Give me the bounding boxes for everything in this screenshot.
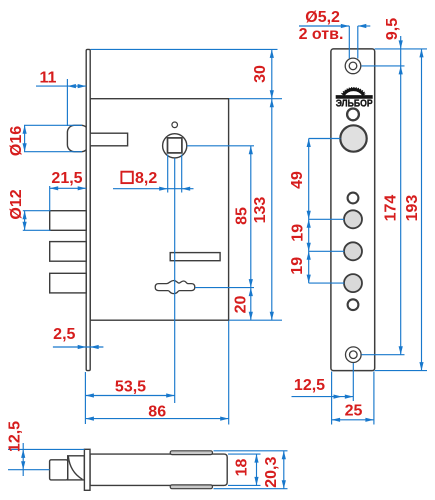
faceplate edge xyxy=(86,49,90,370)
small hole above spindle xyxy=(172,122,178,128)
svg-text:21,5: 21,5 xyxy=(51,170,82,187)
dim d12 line xyxy=(24,211,26,231)
dim 49+19+19 line xyxy=(308,139,310,284)
centerline square down xyxy=(174,158,176,403)
ext side body right top/bottom xyxy=(228,453,261,455)
svg-text:12,5: 12,5 xyxy=(7,421,24,452)
ext top hole center xyxy=(362,65,405,67)
faceplate side bar xyxy=(84,449,90,490)
spindle circle xyxy=(163,134,187,158)
dim 20 arrows xyxy=(249,288,253,297)
dim 2.5 arrows outside xyxy=(78,345,87,349)
dim 133 arrows xyxy=(270,99,274,108)
logo ELBOR bar xyxy=(336,95,373,99)
ext latch left xyxy=(66,79,68,126)
dim 19b arrows xyxy=(307,251,311,259)
latch bevel curve xyxy=(68,456,82,479)
ext side latch center xyxy=(8,469,50,471)
ext bolt1 left xyxy=(49,186,51,210)
leader d5.2 shelf xyxy=(299,25,349,27)
top strip xyxy=(170,451,212,455)
dim 20.3 arrows xyxy=(282,451,286,460)
svg-text:20,3: 20,3 xyxy=(263,457,280,488)
dim 25 line xyxy=(332,419,374,421)
svg-text:Ø5,2: Ø5,2 xyxy=(305,9,340,26)
svg-text:8,2: 8,2 xyxy=(135,170,157,187)
small hole low xyxy=(348,299,359,310)
dim 53.5 arrows xyxy=(85,393,94,397)
ext plate left down xyxy=(84,372,86,424)
bottom strip xyxy=(170,485,212,489)
latch stem side xyxy=(50,460,68,480)
bolt hole 1 xyxy=(344,210,362,228)
ext plate top right xyxy=(375,48,427,50)
ext latch bottom xyxy=(24,151,82,153)
bottom screw hole countersink xyxy=(346,347,362,363)
svg-text:85: 85 xyxy=(234,207,251,225)
faceplate front xyxy=(331,49,375,371)
svg-text:2,5: 2,5 xyxy=(53,326,75,343)
latch bolt (front) xyxy=(67,125,88,151)
svg-text:174: 174 xyxy=(383,195,400,222)
slot xyxy=(170,253,220,261)
dim 30 line xyxy=(271,49,273,98)
dim 12.5 left line xyxy=(22,443,24,476)
dim 18 arrows xyxy=(254,454,258,463)
ext square sides xyxy=(167,155,169,193)
bolt hole 2 xyxy=(344,242,362,260)
svg-text:19: 19 xyxy=(289,257,306,275)
dim 8.2 arrows outside xyxy=(159,187,168,191)
small hole xyxy=(348,193,359,204)
ext plate right bottom xyxy=(373,372,375,425)
label 8.2 with square symbol xyxy=(121,172,132,183)
svg-text:9,5: 9,5 xyxy=(384,18,401,40)
latch bar xyxy=(90,133,127,146)
ext plate top long xyxy=(91,48,278,50)
logo ELBOR teeth xyxy=(342,88,365,94)
dim 193 line xyxy=(421,49,423,371)
svg-text:Ø12: Ø12 xyxy=(8,189,25,219)
ext bottom hole center xyxy=(362,354,405,356)
svg-text:25: 25 xyxy=(345,403,363,420)
svg-text:20: 20 xyxy=(232,296,249,314)
dim 12.5 right arrows xyxy=(334,395,343,399)
ext body bottom xyxy=(229,319,282,321)
spindle square 8.2 xyxy=(168,138,182,153)
dim d16 arrows xyxy=(23,125,27,134)
dim 193 arrows xyxy=(419,49,423,58)
ext plate left bottom xyxy=(331,372,333,425)
big latch opening xyxy=(340,125,366,151)
dim 86 arrows xyxy=(85,417,94,421)
ext side plate top xyxy=(8,448,84,450)
ext bottom hole center down xyxy=(352,363,354,401)
dim 85 arrows xyxy=(249,146,253,155)
ext hole sides xyxy=(348,26,350,59)
side body xyxy=(90,454,227,485)
svg-text:193: 193 xyxy=(404,195,421,222)
svg-text:18: 18 xyxy=(234,459,251,477)
ext strip top/bottom xyxy=(214,450,288,452)
svg-text:2 отв.: 2 отв. xyxy=(299,26,344,43)
latch head side xyxy=(68,456,85,480)
svg-text:53,5: 53,5 xyxy=(115,379,146,396)
ext keyhole center horizontal xyxy=(195,287,254,289)
ext bolt1 bottom xyxy=(23,229,51,231)
ext plate bottom right xyxy=(375,370,427,372)
dim 133 line xyxy=(271,99,273,321)
svg-text:30: 30 xyxy=(252,65,269,83)
dim 12.5 right line xyxy=(292,396,354,398)
ext body top xyxy=(229,98,282,100)
dim 174 arrows xyxy=(399,66,403,75)
top screw hole xyxy=(349,62,357,70)
ext body right down xyxy=(228,321,230,425)
dim 53.5 line xyxy=(85,395,174,397)
ext bolt1 top xyxy=(23,210,51,212)
dim 85+20 line xyxy=(250,146,252,320)
dim 18 line xyxy=(256,454,258,485)
dim 9.5 upper tail xyxy=(400,36,402,49)
bottom screw hole xyxy=(350,351,358,359)
dim 9.5 arrows xyxy=(399,40,403,49)
dim 20.3 line xyxy=(283,451,285,489)
svg-text:Ø16: Ø16 xyxy=(8,126,25,156)
svg-text:19: 19 xyxy=(290,224,307,242)
svg-text:86: 86 xyxy=(148,404,166,421)
hole under logo xyxy=(347,109,359,121)
svg-text:11: 11 xyxy=(40,70,57,87)
dim 19a arrows xyxy=(307,219,311,228)
bolt 1 xyxy=(50,211,86,231)
ext square center horizontal xyxy=(187,145,254,147)
dim 21.5 arrows xyxy=(50,186,59,190)
ext latch top xyxy=(24,124,82,126)
dim 11 line xyxy=(36,85,86,87)
keyhole xyxy=(155,281,195,294)
top screw hole countersink xyxy=(345,58,361,74)
ext bolt hole centers xyxy=(309,218,345,220)
dim 174 line xyxy=(400,49,402,355)
dim 21.5 line xyxy=(50,187,86,189)
lock body xyxy=(90,99,228,321)
svg-text:49: 49 xyxy=(289,171,306,189)
dim 12.5 left arrows xyxy=(21,449,25,458)
bolt 2 xyxy=(50,242,86,262)
dim 49 arrows xyxy=(307,139,311,148)
dim 8.2 line xyxy=(113,188,194,190)
svg-text:133: 133 xyxy=(252,197,269,224)
dim d12 arrows xyxy=(23,211,27,220)
svg-text:12,5: 12,5 xyxy=(294,377,325,394)
logo ELBOR arc xyxy=(343,89,364,95)
dim 30 arrows xyxy=(270,49,274,58)
dim 25 arrows xyxy=(332,418,341,422)
dim 11 arrows xyxy=(67,84,76,88)
bolt hole 3 xyxy=(344,274,362,292)
dim 86 line xyxy=(85,418,228,420)
dim d16 line xyxy=(24,125,26,151)
dim d5.2 arrows outside xyxy=(341,24,350,28)
bolt 3 xyxy=(50,273,86,293)
ext big circle center xyxy=(309,138,341,140)
dim 2.5 line xyxy=(53,346,104,348)
